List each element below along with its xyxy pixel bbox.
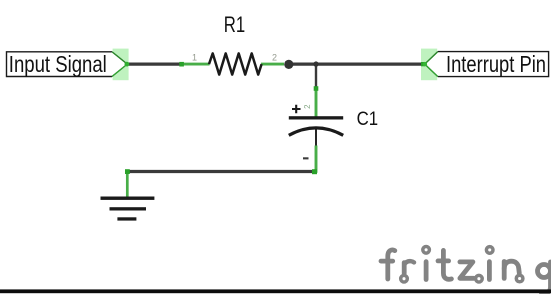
node: T junction small dot: [313, 61, 318, 66]
capacitor C1: bottom plate arc: [289, 128, 343, 135]
net label: Interrupt Pin highlight: [421, 49, 437, 81]
node: junction dot after R1 pin 2: [284, 60, 293, 69]
logo letter z: [460, 262, 474, 278]
logo letter g: [538, 265, 551, 278]
node: input wire endpoint: [125, 62, 130, 67]
svg-text:1: 1: [192, 52, 197, 62]
node: cap-to-wire joint: [312, 169, 317, 174]
net label: Interrupt Pin box: [438, 52, 549, 77]
ground: bar 3: [117, 217, 136, 220]
bottom border line: [0, 289, 551, 293]
ground: bar 2: [110, 207, 147, 210]
svg-text:C1: C1: [357, 109, 379, 130]
ground: bar 1: [101, 197, 155, 200]
resistor R1: zigzag body: [209, 53, 262, 74]
logo letter i (2nd): [487, 262, 492, 280]
wire: input to resistor: [128, 62, 183, 65]
logo letter r: [402, 263, 407, 274]
resistor R1: pin1 lead: [181, 63, 210, 66]
capacitor C1: plus sign: [292, 105, 301, 113]
node: wire-to-pin1 joint: [179, 62, 184, 67]
resistor R1: pin2 lead: [261, 63, 284, 66]
svg-text:2: 2: [272, 52, 277, 62]
svg-text:2: 2: [303, 105, 312, 109]
fritzing watermark: [381, 247, 551, 294]
capacitor C1: pin1 lead (bottom, green): [315, 146, 318, 173]
svg-text:R1: R1: [224, 12, 245, 37]
capacitor C1: top plate: [289, 116, 343, 119]
wire: vertical branch to capacitor: [315, 64, 317, 89]
logo letter n: [502, 262, 507, 279]
capacitor C1: inner lead: [315, 129, 317, 148]
wire: bottom ground wire: [127, 170, 315, 173]
net label: Input Signal box: [7, 52, 113, 77]
logo letter i (1st): [424, 262, 429, 280]
logo letter t: [443, 250, 451, 279]
wire: resistor to interrupt pin: [288, 62, 425, 65]
capacitor C1: minus sign: [303, 157, 309, 159]
capacitor C1: pin2 lead (top, green): [315, 88, 318, 118]
node: ground joint: [125, 169, 130, 174]
svg-text:Input Signal: Input Signal: [9, 51, 107, 77]
net label: Input Signal highlight: [113, 49, 129, 81]
svg-text:Interrupt Pin: Interrupt Pin: [446, 51, 546, 77]
logo letter f: [388, 250, 395, 279]
ground: lead: [126, 170, 129, 199]
node: branch-to-cap joint: [314, 86, 319, 91]
node: interrupt wire endpoint: [421, 62, 425, 66]
